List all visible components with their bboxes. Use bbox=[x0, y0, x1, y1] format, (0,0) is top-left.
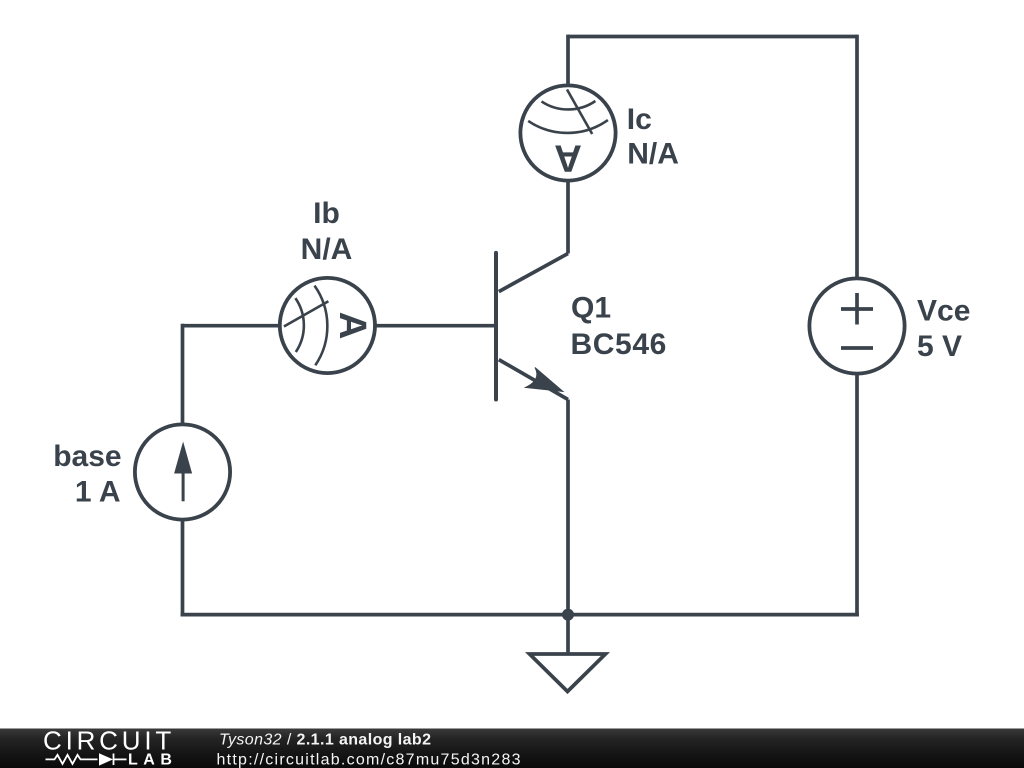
logo resistor-diode bbox=[46, 754, 127, 766]
svg-text:BC546: BC546 bbox=[571, 328, 667, 361]
svg-text:Ic: Ic bbox=[627, 103, 652, 136]
wire right vertical lower bbox=[855, 374, 859, 617]
transistor Q1 emitter arrowhead bbox=[526, 368, 564, 392]
transistor Q1 collector diagonal bbox=[499, 254, 568, 292]
svg-text:Tyson32 / 2.1.1 analog lab2: Tyson32 / 2.1.1 analog lab2 bbox=[219, 732, 431, 749]
junction node bbox=[562, 609, 574, 621]
wire top horizontal bbox=[568, 35, 857, 39]
svg-text:http://circuitlab.com/c87mu75d: http://circuitlab.com/c87mu75d3n283 bbox=[217, 752, 522, 768]
wire ammeter Ic to transistor bbox=[566, 181, 570, 254]
svg-text:A: A bbox=[331, 312, 374, 340]
transistor Q1 base bar bbox=[494, 253, 498, 400]
svg-text:base: base bbox=[53, 440, 121, 473]
wire collector top bbox=[566, 35, 570, 86]
wire Ib left bbox=[183, 324, 282, 328]
wire left vertical upper bbox=[181, 324, 185, 425]
wire ground stub bbox=[566, 615, 570, 654]
svg-text:A: A bbox=[554, 136, 582, 179]
current source base bbox=[135, 424, 230, 519]
ammeter Ib bbox=[280, 278, 375, 373]
transistor Q1 emitter diagonal bbox=[499, 360, 568, 400]
svg-text:Ib: Ib bbox=[313, 197, 340, 230]
voltage source Vce bbox=[809, 278, 904, 373]
svg-text:Vce: Vce bbox=[917, 295, 970, 328]
ground bbox=[530, 654, 606, 692]
ammeter Ic bbox=[520, 85, 615, 180]
svg-text:N/A: N/A bbox=[301, 233, 353, 266]
logo diode triangle bbox=[99, 753, 113, 765]
svg-text:N/A: N/A bbox=[627, 138, 679, 171]
svg-text:LAB: LAB bbox=[128, 752, 177, 768]
wire left vertical lower bbox=[181, 518, 185, 617]
wire emitter vertical bbox=[566, 400, 570, 615]
wire base to transistor bbox=[374, 324, 495, 328]
svg-text:1 A: 1 A bbox=[75, 475, 121, 508]
footer bar bbox=[0, 729, 1024, 768]
svg-text:5 V: 5 V bbox=[917, 330, 962, 363]
svg-text:Q1: Q1 bbox=[571, 292, 611, 325]
wire right vertical upper bbox=[855, 35, 859, 279]
wire bottom horizontal bbox=[181, 613, 859, 617]
